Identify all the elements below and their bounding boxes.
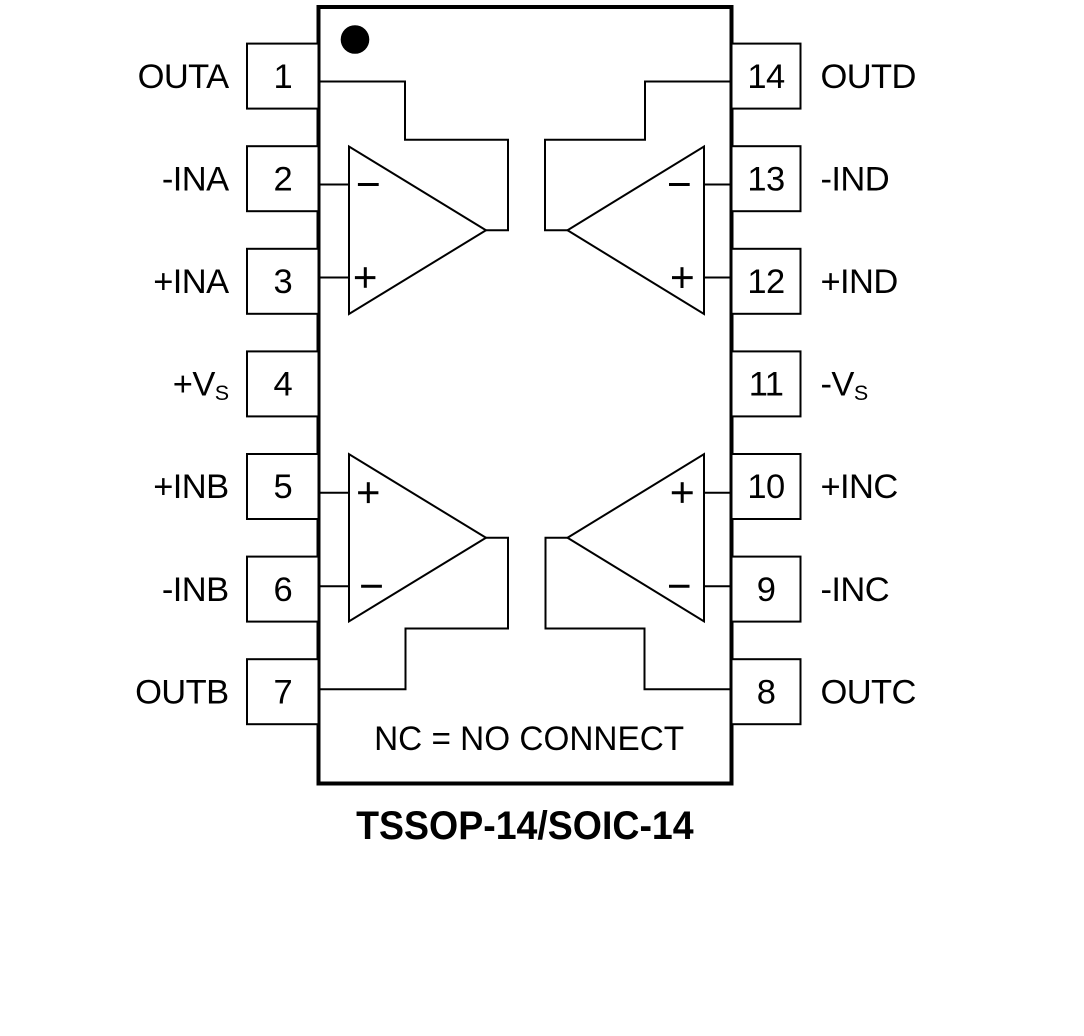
svg-text:3: 3 [273,263,292,301]
svg-text:4: 4 [273,366,292,404]
svg-text:6: 6 [273,571,292,609]
svg-text:8: 8 [757,673,776,711]
svg-text:9: 9 [757,571,776,609]
svg-text:OUTC: OUTC [821,673,916,711]
svg-text:10: 10 [747,468,784,506]
svg-text:OUTD: OUTD [821,58,916,96]
svg-text:OUTB: OUTB [135,673,228,711]
svg-text:7: 7 [273,673,292,711]
svg-text:TSSOP-14/SOIC-14: TSSOP-14/SOIC-14 [356,804,694,848]
svg-text:14: 14 [747,58,785,96]
svg-text:+INB: +INB [153,468,228,506]
svg-text:13: 13 [747,160,784,198]
svg-text:1: 1 [273,58,292,96]
svg-text:+VS: +VS [173,366,229,405]
svg-text:+INC: +INC [821,468,898,506]
svg-text:11: 11 [749,366,784,404]
svg-text:-VS: -VS [821,366,868,405]
svg-text:5: 5 [273,468,292,506]
svg-text:2: 2 [273,160,292,198]
svg-text:12: 12 [747,263,784,301]
svg-text:+INA: +INA [153,263,229,301]
svg-text:OUTA: OUTA [138,58,229,96]
svg-text:-INC: -INC [821,571,890,609]
svg-text:+IND: +IND [821,263,898,301]
svg-text:NC = NO CONNECT: NC = NO CONNECT [374,720,684,758]
svg-text:-IND: -IND [821,160,890,198]
svg-text:-INB: -INB [162,571,229,609]
svg-text:-INA: -INA [162,160,229,198]
